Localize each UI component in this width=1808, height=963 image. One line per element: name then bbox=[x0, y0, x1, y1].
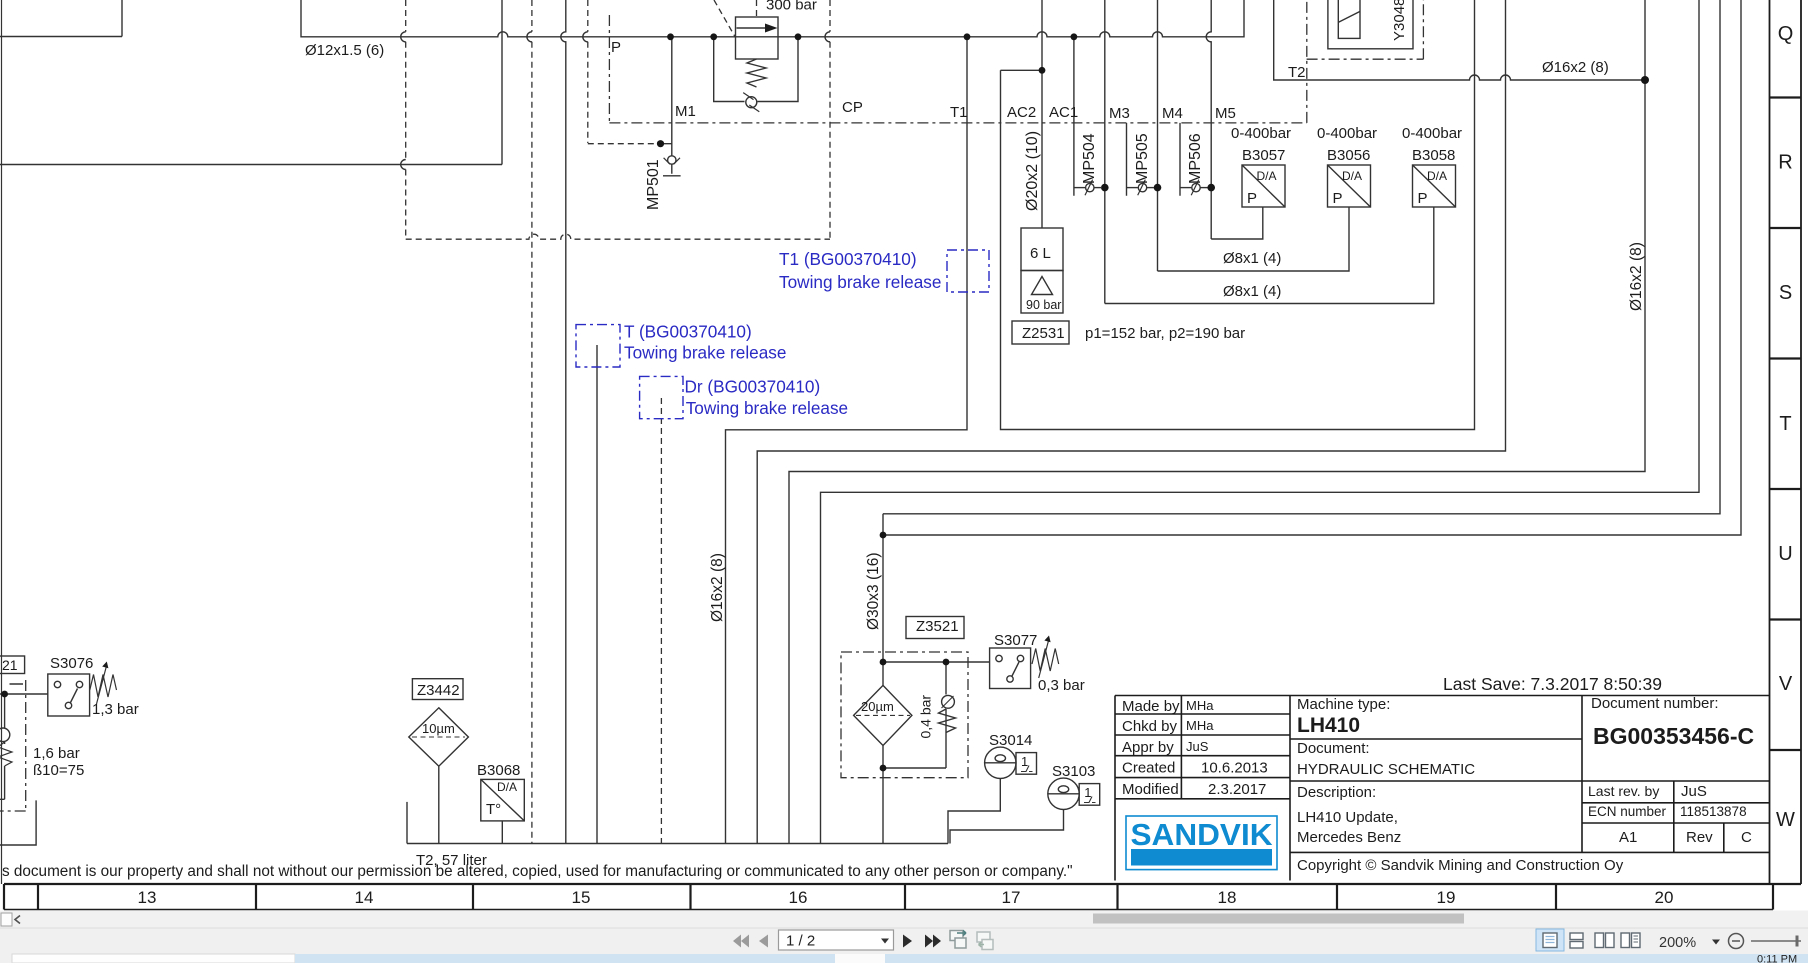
svg-text:2.3.2017: 2.3.2017 bbox=[1208, 781, 1266, 798]
svg-text:118513878: 118513878 bbox=[1680, 804, 1747, 819]
svg-text:Document:: Document: bbox=[1297, 740, 1370, 757]
svg-text:Last rev. by: Last rev. by bbox=[1588, 783, 1659, 799]
svg-text:Z3442: Z3442 bbox=[417, 682, 460, 699]
svg-text:M3: M3 bbox=[1109, 105, 1130, 122]
svg-text:S3103: S3103 bbox=[1052, 763, 1095, 780]
svg-text:Ø20x2 (10): Ø20x2 (10) bbox=[1024, 131, 1041, 211]
svg-text:6 L: 6 L bbox=[1030, 245, 1051, 262]
svg-text:A1: A1 bbox=[1619, 829, 1637, 846]
svg-text:U: U bbox=[1778, 543, 1792, 565]
svg-text:MHa: MHa bbox=[1186, 718, 1214, 733]
svg-text:T: T bbox=[1779, 413, 1791, 435]
svg-text:M1: M1 bbox=[675, 103, 696, 120]
svg-text:Machine type:: Machine type: bbox=[1297, 696, 1390, 713]
svg-text:s document is our property and: s document is our property and shall not… bbox=[2, 863, 1073, 880]
svg-text:1: 1 bbox=[1084, 785, 1091, 800]
svg-text:0,4 bar: 0,4 bar bbox=[918, 695, 934, 739]
svg-text:P: P bbox=[1247, 190, 1257, 207]
svg-text:T1: T1 bbox=[950, 104, 968, 121]
svg-text:Ø16x2 (8): Ø16x2 (8) bbox=[1628, 242, 1645, 311]
svg-text:1: 1 bbox=[1021, 754, 1028, 769]
svg-text:Created: Created bbox=[1122, 760, 1175, 777]
svg-text:90 bar: 90 bar bbox=[1026, 298, 1061, 312]
svg-text:ß10=75: ß10=75 bbox=[33, 762, 84, 779]
svg-text:S3014: S3014 bbox=[989, 732, 1032, 749]
svg-text:Ø30x3 (16): Ø30x3 (16) bbox=[865, 552, 882, 630]
svg-text:16: 16 bbox=[789, 888, 808, 907]
svg-text:300 bar: 300 bar bbox=[766, 0, 817, 14]
svg-text:10.6.2013: 10.6.2013 bbox=[1201, 760, 1268, 777]
svg-text:SANDVIK: SANDVIK bbox=[1131, 817, 1274, 852]
svg-text:MP501: MP501 bbox=[645, 159, 662, 210]
svg-text:S3077: S3077 bbox=[994, 632, 1037, 649]
svg-text:Ø16x2 (8): Ø16x2 (8) bbox=[1542, 59, 1609, 76]
svg-text:T (BG00370410): T (BG00370410) bbox=[624, 322, 752, 342]
svg-text:AC1: AC1 bbox=[1049, 104, 1078, 121]
svg-text:20µm: 20µm bbox=[861, 699, 894, 714]
svg-text:0,3 bar: 0,3 bar bbox=[1038, 677, 1085, 694]
svg-text:Ø8x1 (4): Ø8x1 (4) bbox=[1223, 283, 1281, 300]
svg-text:D/A: D/A bbox=[1342, 169, 1362, 183]
svg-text:B3068: B3068 bbox=[477, 762, 520, 779]
svg-text:Ø8x1 (4): Ø8x1 (4) bbox=[1223, 250, 1281, 267]
svg-text:Appr by: Appr by bbox=[1122, 739, 1174, 756]
svg-text:Copyright © Sandvik Mining and: Copyright © Sandvik Mining and Construct… bbox=[1297, 857, 1624, 874]
svg-text:S: S bbox=[1779, 282, 1792, 304]
svg-text:13: 13 bbox=[138, 888, 157, 907]
svg-text:Z2531: Z2531 bbox=[1022, 325, 1065, 342]
svg-text:200%: 200% bbox=[1659, 935, 1696, 951]
svg-text:Z3521: Z3521 bbox=[916, 618, 959, 635]
svg-text:Description:: Description: bbox=[1297, 784, 1376, 801]
svg-text:D/A: D/A bbox=[1257, 169, 1277, 183]
svg-text:B3057: B3057 bbox=[1242, 147, 1285, 164]
svg-text:B3058: B3058 bbox=[1412, 147, 1455, 164]
svg-text:T2: T2 bbox=[1288, 64, 1306, 81]
svg-text:Ø16x2 (8): Ø16x2 (8) bbox=[709, 553, 726, 622]
svg-text:MHa: MHa bbox=[1186, 698, 1214, 713]
svg-text:T°: T° bbox=[486, 801, 501, 818]
svg-text:M4: M4 bbox=[1162, 105, 1183, 122]
svg-text:HYDRAULIC SCHEMATIC: HYDRAULIC SCHEMATIC bbox=[1297, 761, 1475, 778]
svg-text:M5: M5 bbox=[1215, 105, 1236, 122]
svg-text:D/A: D/A bbox=[1427, 169, 1447, 183]
svg-text:p1=152 bar, p2=190 bar: p1=152 bar, p2=190 bar bbox=[1085, 325, 1245, 342]
svg-text:0-400bar: 0-400bar bbox=[1402, 125, 1462, 142]
svg-text:P: P bbox=[1418, 190, 1428, 207]
svg-text:Towing brake release: Towing brake release bbox=[686, 398, 848, 418]
svg-text:Q: Q bbox=[1778, 23, 1794, 45]
svg-text:S3076: S3076 bbox=[50, 655, 93, 672]
svg-text:CP: CP bbox=[842, 99, 863, 116]
svg-text:Y3048: Y3048 bbox=[1391, 0, 1408, 41]
svg-text:18: 18 bbox=[1218, 888, 1237, 907]
svg-text:Mercedes Benz: Mercedes Benz bbox=[1297, 829, 1401, 846]
svg-text:T1 (BG00370410): T1 (BG00370410) bbox=[779, 249, 917, 269]
svg-text:Rev: Rev bbox=[1686, 829, 1713, 846]
svg-text:MP505: MP505 bbox=[1134, 133, 1151, 184]
svg-text:10µm: 10µm bbox=[422, 721, 455, 736]
svg-text:LH410 Update,: LH410 Update, bbox=[1297, 809, 1398, 826]
svg-text:Last Save: 7.3.2017 8:50:3: Last Save: 7.3.2017 8:50:39 bbox=[1443, 674, 1662, 694]
svg-text:0:11 PM: 0:11 PM bbox=[1757, 954, 1797, 963]
svg-text:JuS: JuS bbox=[1186, 739, 1209, 754]
svg-text:ECN number: ECN number bbox=[1588, 804, 1667, 819]
svg-text:14: 14 bbox=[355, 888, 374, 907]
svg-text:B3056: B3056 bbox=[1327, 147, 1370, 164]
svg-text:15: 15 bbox=[572, 888, 591, 907]
svg-text:P: P bbox=[1333, 190, 1343, 207]
svg-text:P: P bbox=[611, 39, 621, 56]
svg-text:MP506: MP506 bbox=[1187, 133, 1204, 184]
svg-text:Chkd by: Chkd by bbox=[1122, 718, 1178, 735]
svg-text:JuS: JuS bbox=[1681, 783, 1707, 800]
svg-text:1 / 2: 1 / 2 bbox=[786, 933, 815, 950]
svg-text:LH410: LH410 bbox=[1297, 714, 1360, 737]
svg-text:Modified: Modified bbox=[1122, 781, 1179, 798]
svg-text:D/A: D/A bbox=[497, 780, 517, 794]
svg-text:21: 21 bbox=[2, 657, 18, 673]
svg-text:Ø12x1.5 (6): Ø12x1.5 (6) bbox=[305, 42, 384, 59]
svg-text:C: C bbox=[1741, 829, 1752, 846]
svg-text:20: 20 bbox=[1655, 888, 1674, 907]
svg-text:R: R bbox=[1778, 152, 1792, 174]
svg-text:0-400bar: 0-400bar bbox=[1231, 125, 1291, 142]
svg-text:17: 17 bbox=[1002, 888, 1021, 907]
svg-text:19: 19 bbox=[1437, 888, 1456, 907]
svg-text:0-400bar: 0-400bar bbox=[1317, 125, 1377, 142]
svg-text:Document number:: Document number: bbox=[1591, 695, 1719, 712]
svg-text:Dr (BG00370410): Dr (BG00370410) bbox=[685, 377, 821, 397]
svg-text:AC2: AC2 bbox=[1007, 104, 1036, 121]
svg-text:Towing brake release: Towing brake release bbox=[624, 343, 786, 363]
svg-text:MP504: MP504 bbox=[1081, 133, 1098, 184]
svg-text:Made by: Made by bbox=[1122, 698, 1180, 715]
svg-text:W: W bbox=[1776, 809, 1795, 831]
svg-text:1,6 bar: 1,6 bar bbox=[33, 745, 80, 762]
svg-text:1,3 bar: 1,3 bar bbox=[92, 701, 139, 718]
svg-text:V: V bbox=[1779, 673, 1793, 695]
svg-text:BG00353456-C: BG00353456-C bbox=[1593, 723, 1754, 749]
svg-text:Towing brake release: Towing brake release bbox=[779, 272, 941, 292]
